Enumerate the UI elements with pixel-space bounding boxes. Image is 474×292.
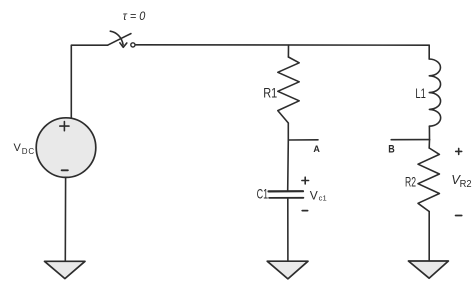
wire R2 to ground <box>428 212 430 261</box>
wire from top wire down to R1 <box>287 45 289 57</box>
label - of C1 <box>302 210 307 212</box>
wire top-left from source to switch <box>71 45 107 118</box>
ground (left) <box>45 261 86 278</box>
ground (right) <box>408 261 448 278</box>
svg-text:L1: L1 <box>415 86 426 101</box>
node B stub <box>391 139 429 141</box>
label L1 <box>415 86 426 101</box>
wire from source bottom to ground <box>64 177 66 261</box>
svg-text:R2: R2 <box>405 173 416 189</box>
voltage source VDC <box>36 118 96 178</box>
label VDC <box>14 142 35 156</box>
inductor L1 <box>429 59 440 126</box>
wire top from switch to L1 branch <box>136 44 429 46</box>
label Vc1 <box>310 189 327 203</box>
svg-text:R1: R1 <box>263 86 277 101</box>
capacitor C1 <box>269 191 304 198</box>
label + of C1 <box>302 177 309 184</box>
svg-text:c1: c1 <box>319 196 327 203</box>
label - of R2 <box>456 215 462 217</box>
switch label tau = 0 <box>123 9 146 23</box>
label A <box>313 144 320 154</box>
svg-text:C1: C1 <box>257 185 269 201</box>
label R2 <box>405 173 416 189</box>
svg-text:V: V <box>310 189 318 203</box>
svg-text:A: A <box>313 144 320 154</box>
wire node A to C1 <box>287 140 290 191</box>
resistor R2 <box>418 148 439 212</box>
wire R1 to node A <box>287 123 289 140</box>
node A stub <box>288 139 318 141</box>
label R1 <box>263 86 277 101</box>
label B <box>388 144 395 156</box>
svg-text:B: B <box>388 144 395 156</box>
wire node B to R2 <box>428 140 430 148</box>
svg-text:τ = 0: τ = 0 <box>123 9 146 23</box>
label VR2 <box>451 172 471 190</box>
resistor R1 <box>278 57 299 123</box>
label + of R2 <box>456 148 462 154</box>
svg-text:R2: R2 <box>460 178 472 190</box>
ground (middle) <box>267 261 308 279</box>
switch S1 <box>108 31 135 47</box>
label C1 <box>257 185 269 201</box>
wire top wire corner down to L1 <box>428 45 430 59</box>
svg-text:V: V <box>14 142 22 154</box>
wire C1 to ground <box>287 198 289 261</box>
svg-text:DC: DC <box>22 147 35 156</box>
wire L1 to node B <box>428 126 430 139</box>
